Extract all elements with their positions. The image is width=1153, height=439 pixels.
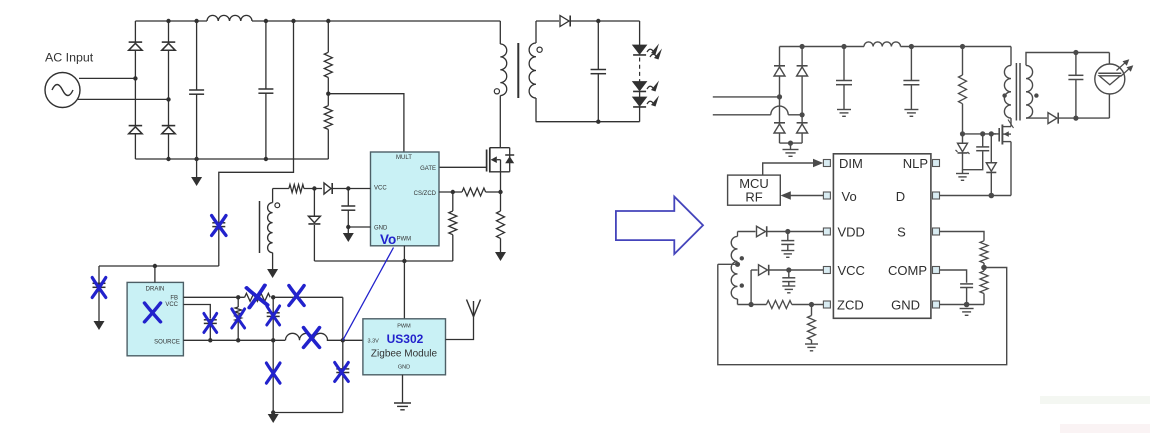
svg-text:VDD: VDD xyxy=(838,225,865,240)
wire comp loop xyxy=(718,264,1007,364)
wire out bottom xyxy=(536,121,640,123)
wire top rail left xyxy=(135,20,207,22)
node drain tap xyxy=(153,264,157,268)
wire SOURCE right xyxy=(327,339,363,341)
wire AC line1 xyxy=(79,77,135,79)
decoration xyxy=(1040,396,1150,433)
wire VCC stub xyxy=(183,305,210,319)
node VCC cap xyxy=(786,267,791,272)
capacitor Cvdd xyxy=(781,232,794,251)
zener DZ xyxy=(956,134,983,170)
ground arrow stub xyxy=(94,321,105,330)
LED LED2 xyxy=(633,80,659,92)
wire gate stub xyxy=(991,133,999,135)
aux winding T1b xyxy=(268,189,273,253)
X-mark U2 xyxy=(145,303,161,322)
diode D4R xyxy=(797,123,808,133)
secondary winding T2 xyxy=(1026,65,1033,118)
AC input label xyxy=(45,51,94,65)
node sec cap top xyxy=(1073,50,1078,55)
wire LED dashed xyxy=(639,58,641,81)
wire antenna xyxy=(446,317,474,340)
node bot corner xyxy=(271,410,275,414)
node Vo label xyxy=(380,232,396,247)
wire VDD2 xyxy=(767,231,824,233)
wire primary top xyxy=(499,21,501,44)
wire aux top xyxy=(273,188,289,190)
LED LED1 xyxy=(633,44,662,60)
ground arrow bridge xyxy=(191,159,202,186)
pin label GATE xyxy=(420,166,436,172)
capacitor C3R xyxy=(1068,53,1083,119)
svg-text:MULT: MULT xyxy=(396,155,412,161)
node gnd U1 xyxy=(346,225,350,229)
X-mark Rfb xyxy=(247,285,268,307)
svg-text:PWM: PWM xyxy=(397,236,412,242)
node top divider xyxy=(326,19,330,23)
svg-text:PWM: PWM xyxy=(397,324,411,330)
pin NLP xyxy=(933,160,940,167)
wire drain Q1 xyxy=(499,96,501,148)
wire sec top R xyxy=(1026,53,1109,66)
antenna xyxy=(467,300,481,317)
svg-text:COMP: COMP xyxy=(888,263,927,278)
diode D1R xyxy=(774,66,785,76)
arrow Vo xyxy=(781,191,791,200)
capacitor Cg xyxy=(976,134,989,151)
svg-text:AC Input: AC Input xyxy=(45,51,94,65)
wire top rail right xyxy=(252,20,500,22)
node topB R xyxy=(841,44,846,49)
node src a xyxy=(208,338,212,342)
svg-text:D: D xyxy=(896,189,905,204)
pin label GND2 xyxy=(891,298,920,313)
controller U4 xyxy=(833,154,931,318)
wire divider to MULT xyxy=(328,94,404,152)
wire U3 gnd xyxy=(402,375,404,403)
svg-text:ZCD: ZCD xyxy=(837,298,864,313)
wire FB xyxy=(183,296,244,298)
resistor Rsense xyxy=(497,211,505,238)
node vcc d1 xyxy=(312,186,316,190)
svg-text:DIM: DIM xyxy=(839,156,863,171)
node bridge gnd R xyxy=(788,141,793,146)
ground C2R xyxy=(904,110,918,117)
wire VCC R2 xyxy=(769,269,824,271)
node ZCD b xyxy=(809,302,814,307)
node ac2 R xyxy=(800,112,805,117)
svg-text:VCC: VCC xyxy=(374,186,387,192)
node pwm cross xyxy=(402,259,406,263)
wire bridge col1 R xyxy=(779,47,781,144)
svg-text:VCC: VCC xyxy=(838,263,865,278)
wire D pin xyxy=(940,195,1012,197)
resistor Rs1 xyxy=(980,241,988,263)
primary winding T1 xyxy=(500,44,506,96)
pin label ZCD xyxy=(837,298,864,313)
wire secondary bottom xyxy=(535,98,537,122)
node gate b xyxy=(980,131,985,136)
node gate a xyxy=(960,131,965,136)
node divider mid xyxy=(326,92,330,96)
svg-text:US302: US302 xyxy=(387,332,424,346)
diode Dvcc R xyxy=(759,265,769,276)
pin label S xyxy=(897,225,906,240)
core T2 xyxy=(1016,63,1020,121)
diode Dzen down xyxy=(308,189,320,262)
AC source V1 xyxy=(45,73,80,108)
node vcc cap xyxy=(346,186,350,190)
core T1b xyxy=(259,201,261,253)
ground chip R xyxy=(960,309,974,316)
svg-text:FB: FB xyxy=(170,295,178,301)
node comp div xyxy=(981,265,987,271)
node AC-N xyxy=(166,97,170,101)
MOSFET Q1 xyxy=(487,148,515,173)
ground C1R xyxy=(837,110,851,117)
diode D1 xyxy=(129,42,143,50)
wire VDD xyxy=(738,231,756,233)
capacitor cut stub xyxy=(93,283,106,287)
svg-text:NLP: NLP xyxy=(903,156,928,171)
capacitor C4 xyxy=(336,340,349,412)
wire Rvcc diode xyxy=(304,188,322,190)
wire top rail R xyxy=(780,46,865,48)
wire diode to chip xyxy=(333,188,371,190)
pin label DRAIN xyxy=(146,287,165,293)
wire bus to drain xyxy=(99,265,219,267)
node bot C1 xyxy=(194,157,198,161)
wire bridge col2 xyxy=(168,21,170,159)
pin label DIM xyxy=(839,156,863,171)
resistor Rzcd pull xyxy=(808,305,816,345)
X-mark cut bus xyxy=(212,216,226,236)
wire bridge col1 xyxy=(134,21,136,159)
node center tap xyxy=(735,262,740,267)
resistor Rg top xyxy=(959,47,967,134)
wire CS/ZCD xyxy=(439,191,462,193)
pin label NLP xyxy=(903,156,928,171)
wire DRAIN pin xyxy=(154,266,156,282)
pin label D xyxy=(896,189,905,204)
X-mark below xyxy=(266,363,280,383)
capacitor cut bus bar xyxy=(212,223,225,227)
wire Vo R xyxy=(791,195,824,197)
wire ZCD xyxy=(738,304,767,306)
pin DIM xyxy=(823,160,830,167)
wire AC line2 xyxy=(78,98,169,100)
pin Vo xyxy=(823,192,830,199)
wire pwm rail xyxy=(314,260,452,262)
resistor Rfb xyxy=(245,293,271,301)
ground U3 xyxy=(394,403,411,410)
wire S pin xyxy=(940,232,985,241)
svg-text:GND: GND xyxy=(398,365,410,371)
ground Cvdd xyxy=(781,251,794,258)
wire LED top xyxy=(639,21,641,45)
pin label VCC U1 xyxy=(374,186,387,192)
wire cap3 branch xyxy=(272,297,274,312)
resistor Rdiv1 xyxy=(324,21,332,106)
svg-text:VCC: VCC xyxy=(165,302,178,308)
wire LED bottom xyxy=(639,107,641,122)
svg-text:DRAIN: DRAIN xyxy=(146,287,165,293)
svg-text:Zigbee Module: Zigbee Module xyxy=(371,349,438,360)
capacitor Cv2 xyxy=(204,320,217,341)
diode D3R xyxy=(774,123,785,133)
wire gnd U1 xyxy=(348,226,370,228)
pin label GND U1 xyxy=(374,225,388,231)
wire bottom link xyxy=(273,412,343,414)
wire sec bottom R2 xyxy=(1058,117,1109,119)
node FB b xyxy=(271,295,275,299)
node 3v3 xyxy=(341,338,345,342)
node gnd R xyxy=(964,302,970,308)
X-mark C3 xyxy=(267,306,280,325)
diode Dvdd xyxy=(757,226,767,237)
capacitor Cvcc R xyxy=(782,270,795,286)
node Q1 source xyxy=(498,190,502,194)
pin GND xyxy=(933,301,940,308)
pin S xyxy=(933,228,940,235)
pin COMP xyxy=(933,267,940,274)
node out cap top xyxy=(596,19,600,23)
wire out top xyxy=(571,20,640,22)
pin ZCD xyxy=(823,301,830,308)
wire U1 PWM down xyxy=(403,246,405,319)
node bot col2 xyxy=(166,157,170,161)
wire FB down xyxy=(342,297,344,340)
node AC-L xyxy=(133,76,137,80)
inductor L1R xyxy=(864,42,901,47)
wire ac line1 R xyxy=(713,96,780,98)
aux winding T2b xyxy=(731,232,737,305)
MCU RF block xyxy=(728,175,781,205)
wire center tap xyxy=(718,263,738,265)
pin label PWM U1 xyxy=(397,236,412,242)
wire FB right xyxy=(273,296,343,298)
arrow aux return xyxy=(267,253,278,278)
node topC R xyxy=(909,44,914,49)
inductor Lsrc xyxy=(286,333,328,340)
X-mark cut stub xyxy=(92,278,106,298)
inductor L1 xyxy=(207,15,252,21)
node CS junction xyxy=(451,190,455,194)
wire COMP xyxy=(940,270,967,283)
core T1 xyxy=(517,43,519,98)
svg-text:GND: GND xyxy=(374,225,388,231)
ground arrow Cvcc xyxy=(343,233,354,242)
wire mid branch xyxy=(237,297,239,307)
primary winding T2 xyxy=(1004,47,1011,119)
node sec cap bot xyxy=(1073,116,1078,121)
wire DC bus down xyxy=(219,21,294,266)
svg-text:RF: RF xyxy=(745,190,762,205)
pin label MULT xyxy=(396,155,412,161)
pin label FB xyxy=(170,295,178,301)
diode Dvcc xyxy=(324,183,332,194)
node topA R xyxy=(800,44,805,49)
node src b xyxy=(236,338,240,342)
node D diode xyxy=(989,193,995,199)
pin label 3.3V xyxy=(368,339,380,345)
wire ac line2 R xyxy=(713,106,802,115)
wire vcc tap xyxy=(750,270,752,305)
wire gate Q1 xyxy=(439,166,487,168)
pin label VDD xyxy=(838,225,865,240)
LED lamp xyxy=(1095,53,1134,119)
node ZCD a xyxy=(749,302,754,307)
svg-text:CS/ZCD: CS/ZCD xyxy=(414,191,437,197)
X-mark FB wire xyxy=(289,286,304,306)
ground arrow Rsense xyxy=(495,238,506,261)
svg-text:SOURCE: SOURCE xyxy=(154,340,180,346)
op-amp U1 body xyxy=(371,152,440,246)
X-mark Lsrc xyxy=(304,328,320,348)
svg-text:3.3V: 3.3V xyxy=(368,339,380,345)
diode D5 output xyxy=(560,16,570,27)
node top C2 xyxy=(264,19,268,23)
pin label PWM U3 xyxy=(397,324,411,330)
phase dot primary T2 xyxy=(1002,93,1006,97)
diode D2R xyxy=(797,66,808,76)
wire gate rail xyxy=(963,133,997,135)
pin label COMP xyxy=(888,263,927,278)
ground zener xyxy=(956,170,969,181)
capacitor Cvcc xyxy=(341,189,355,234)
wire below branch xyxy=(272,340,274,412)
pin label SOURCE U2 xyxy=(154,340,180,346)
capacitor Cout xyxy=(591,21,607,122)
node FB a xyxy=(236,295,240,299)
wire bus stub down xyxy=(98,266,100,321)
phase dot aux2 xyxy=(740,283,744,287)
arrow between schematics xyxy=(616,197,703,254)
pin D xyxy=(933,192,940,199)
capacitor C1R xyxy=(836,47,852,110)
pin VDD xyxy=(823,228,830,235)
diode Dg xyxy=(986,134,996,196)
wire top rail R2 xyxy=(901,46,1012,48)
svg-text:Vo: Vo xyxy=(380,232,396,247)
ground arrow bottom xyxy=(268,413,279,424)
capacitor C3 xyxy=(267,313,280,341)
node VDD cap xyxy=(785,229,790,234)
resistor Rdiv2 xyxy=(324,106,332,159)
node src c xyxy=(271,338,275,342)
capacitor C1 xyxy=(189,21,204,159)
MOSFET Q1R xyxy=(999,118,1013,195)
pin label CS/ZCD xyxy=(414,191,437,197)
label US302 xyxy=(387,332,424,346)
wire SOURCE xyxy=(183,339,285,341)
wire DIM xyxy=(763,163,814,175)
pin label VCC xyxy=(838,263,865,278)
LED LED3 xyxy=(633,92,659,107)
wire secondary top xyxy=(536,21,559,43)
node top col2 xyxy=(166,19,170,23)
resistor Rzcd R xyxy=(766,301,791,309)
buck module U2 xyxy=(127,282,183,355)
ground Rzcd xyxy=(805,344,818,351)
label Zigbee Module xyxy=(371,349,438,360)
secondary winding T1 xyxy=(529,43,536,98)
wire Vo link xyxy=(343,248,394,341)
pin label Vo2 xyxy=(842,189,857,204)
resistor Rzcd down xyxy=(449,192,457,261)
X-mark Rmid xyxy=(232,309,245,328)
ground Cvcc R xyxy=(782,286,795,293)
resistor Rvcc xyxy=(289,185,304,193)
X-mark C4 xyxy=(335,363,349,382)
node ac1 R xyxy=(777,94,782,99)
wire GND pin xyxy=(940,304,985,306)
capacitor C2 xyxy=(258,21,273,159)
svg-text:GND: GND xyxy=(891,298,920,313)
diode D5R xyxy=(1048,113,1058,124)
wire Q1 source down xyxy=(500,172,502,211)
wire bridge col2 R xyxy=(801,47,803,144)
resistor Rmid xyxy=(235,307,241,340)
X-mark Cv2 xyxy=(204,314,217,333)
phase dot primary xyxy=(494,89,499,94)
wire sec bottom R xyxy=(1026,117,1047,119)
wire bottom rail xyxy=(135,158,328,160)
pin label GND U3 xyxy=(398,365,410,371)
wire bridge bottom R xyxy=(780,142,803,144)
node topD R xyxy=(960,44,965,49)
node top C1 xyxy=(194,19,198,23)
ground bridge R xyxy=(783,143,799,156)
node gate c xyxy=(989,131,994,136)
phase dot aux xyxy=(275,203,280,208)
wire VCC R xyxy=(751,269,757,271)
Zigbee module U3 xyxy=(363,319,446,375)
wire ZCD2 xyxy=(792,304,823,306)
resistor Rcs xyxy=(462,188,486,196)
pin VCC xyxy=(823,267,830,274)
pin label VCC U2 xyxy=(165,302,178,308)
resistor Rs2 xyxy=(980,263,988,305)
capacitor C2R xyxy=(903,47,919,110)
diode D2 xyxy=(162,42,176,50)
svg-text:S: S xyxy=(897,225,906,240)
arrow DIM xyxy=(813,159,823,168)
phase dot secondary T2 xyxy=(1034,93,1038,97)
node bot C2 xyxy=(264,157,268,161)
capacitor Ccomp xyxy=(960,284,973,305)
wire Rcs to source xyxy=(486,191,501,193)
phase dot secondary xyxy=(537,47,542,52)
node out cap bot xyxy=(596,120,600,124)
diode D4 xyxy=(162,126,176,134)
diode D3 xyxy=(129,126,143,134)
svg-text:GATE: GATE xyxy=(420,166,436,172)
node top bus xyxy=(291,19,295,23)
phase dot aux1 xyxy=(740,256,744,260)
svg-text:Vo: Vo xyxy=(842,189,857,204)
